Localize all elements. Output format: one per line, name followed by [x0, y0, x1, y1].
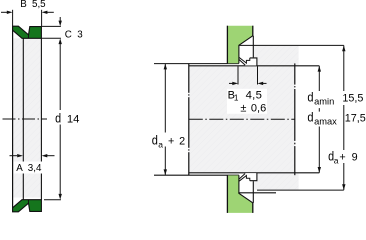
- svg-text:2: 2: [179, 135, 185, 147]
- svg-text:3: 3: [77, 29, 83, 40]
- svg-text:3,4: 3,4: [28, 163, 42, 174]
- svg-text:5,5: 5,5: [32, 0, 46, 10]
- svg-text:d: d: [307, 90, 313, 105]
- svg-text:1: 1: [234, 94, 239, 103]
- svg-text:0,6: 0,6: [251, 102, 266, 114]
- svg-text:+: +: [339, 152, 345, 164]
- svg-text:a: a: [158, 139, 163, 149]
- svg-text:17,5: 17,5: [345, 112, 366, 124]
- svg-text:±: ±: [240, 102, 246, 114]
- svg-text:amin: amin: [314, 96, 334, 106]
- svg-text:+: +: [168, 135, 174, 147]
- svg-text:A: A: [16, 163, 23, 174]
- svg-text:d: d: [152, 132, 158, 147]
- svg-text:15,5: 15,5: [342, 92, 363, 104]
- svg-text:d: d: [307, 110, 313, 125]
- svg-text:C: C: [65, 29, 72, 40]
- svg-text:9: 9: [352, 152, 358, 164]
- svg-text:a: a: [334, 156, 339, 166]
- svg-text:d: d: [55, 112, 61, 126]
- svg-text:amax: amax: [314, 116, 337, 126]
- svg-text:B: B: [20, 0, 27, 10]
- svg-text:14: 14: [67, 113, 80, 125]
- svg-text:4,5: 4,5: [246, 89, 263, 101]
